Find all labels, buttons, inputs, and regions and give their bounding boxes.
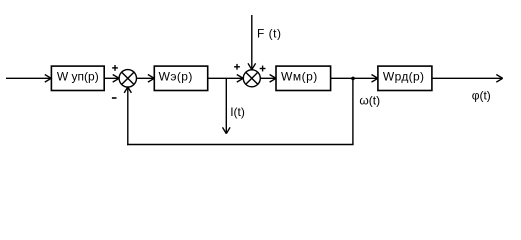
wire feedback bottom (127, 144, 354, 146)
block Wрд(p) (378, 66, 432, 90)
block W уп(p) (51, 66, 104, 90)
svg-text:I(t): I(t) (230, 105, 245, 119)
wire W уп(p) to summer 1 (104, 75, 119, 83)
plus sign left of summer 2 (234, 64, 240, 70)
summer 1 (comparison junction) (119, 70, 136, 87)
wire Wэ(p) to summer 2 (208, 75, 244, 83)
plus sign right of summer 2 (260, 66, 266, 72)
block Wэ(p) (154, 66, 207, 90)
svg-text:ω(t): ω(t) (359, 94, 380, 108)
wire F(t) input down to summer 2 (248, 15, 256, 70)
plus sign at summer 1 (112, 65, 118, 71)
svg-text:F (t): F (t) (257, 26, 282, 40)
wire I(t) branch down (223, 78, 231, 133)
wire feedback up to summer 1 (124, 87, 131, 145)
wire output φ(t) (432, 75, 503, 83)
node ω(t) junction dot (351, 77, 355, 81)
svg-text:Wм(p): Wм(p) (281, 70, 318, 84)
wire Wм(p) to Wрд(p) (331, 75, 378, 83)
summer 2 (adding junction) (243, 70, 260, 87)
minus sign at summer 1 (112, 97, 117, 99)
block Wм(p) (276, 66, 331, 90)
wire summer 2 to Wм(p) (260, 75, 276, 83)
wire input (6, 75, 51, 83)
svg-text:φ(t): φ(t) (472, 88, 491, 102)
svg-text:Wрд(p): Wрд(p) (383, 70, 425, 84)
svg-text:Wэ(p): Wэ(p) (159, 70, 193, 84)
wire feedback down from node (352, 78, 354, 144)
wire summer 1 to Wэ(p) (137, 75, 155, 83)
svg-text:W уп(p): W уп(p) (57, 70, 99, 84)
